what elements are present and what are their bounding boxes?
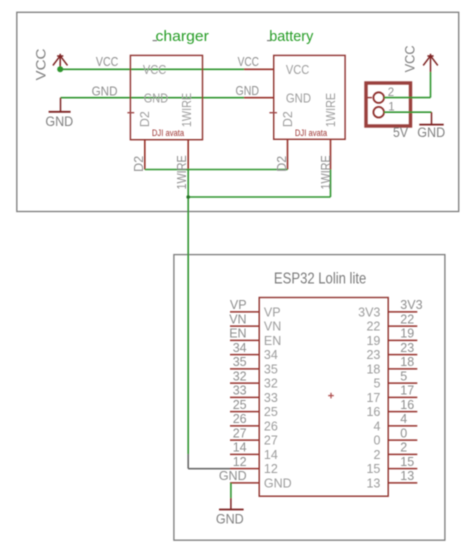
svg-text:17: 17 — [366, 391, 380, 405]
ground symbol (right) — [417, 112, 445, 140]
battery pin name D2 — [281, 111, 295, 127]
net label D2 (battery) — [275, 156, 289, 172]
wire pin1 to GND — [384, 111, 432, 113]
svg-text:23: 23 — [400, 341, 414, 355]
net label 26 — [233, 412, 247, 426]
svg-text:GND: GND — [45, 114, 73, 129]
svg-text:GND: GND — [236, 84, 260, 98]
net label 32 — [233, 369, 247, 383]
ESP32 right pin 19 stub — [388, 339, 417, 341]
wire GND (ESP32) — [230, 483, 232, 498]
ESP32 right pin 2 stub — [388, 453, 417, 455]
svg-text:4: 4 — [373, 419, 380, 433]
net label 15 — [400, 455, 414, 469]
svg-text:35: 35 — [233, 355, 247, 369]
svg-text:D2: D2 — [281, 111, 295, 127]
ESP32 left pin 14 stub — [230, 453, 259, 455]
net label VP — [230, 298, 247, 312]
wire pin2 to VCC — [384, 72, 431, 98]
pin number 2 — [388, 87, 394, 99]
svg-text:D2: D2 — [275, 156, 289, 172]
ESP32 pin name 15 — [366, 462, 380, 476]
ESP32 left pin 26 stub — [230, 425, 259, 427]
ESP32 pin name 35 — [264, 362, 278, 376]
ESP32 pin name 33 — [264, 391, 278, 405]
wire GND net — [61, 97, 245, 99]
battery pin name GND — [286, 91, 311, 105]
ESP32 left pin EN stub — [230, 339, 259, 341]
net label VCC (left) — [96, 55, 118, 69]
wire 1WIRE vertical (charger, down to ESP32) — [187, 170, 189, 455]
svg-text:14: 14 — [233, 441, 247, 455]
svg-text:D2: D2 — [138, 111, 152, 127]
wire to pin 12 (gray) — [188, 454, 230, 469]
svg-text:22: 22 — [366, 320, 380, 334]
net label GND — [219, 469, 247, 483]
ESP32 left pin VP stub — [230, 311, 259, 313]
svg-text:ESP32 Lolin lite: ESP32 Lolin lite — [274, 271, 366, 288]
svg-text:23: 23 — [366, 348, 380, 362]
battery pin GND stub — [244, 97, 274, 99]
svg-text:5: 5 — [400, 369, 407, 383]
ESP32 pin name 0 — [373, 434, 380, 448]
ESP32 pin name GND — [264, 476, 292, 490]
ESP32 component box — [259, 298, 388, 497]
ESP32 right pin 13 stub — [388, 482, 417, 484]
ESP32 right pin 18 stub — [388, 368, 417, 370]
net label GND (left) — [92, 84, 118, 98]
net label 35 — [233, 355, 247, 369]
svg-text:16: 16 — [366, 405, 380, 419]
svg-text:14: 14 — [264, 448, 278, 462]
ground symbol (ESP32) — [216, 498, 244, 526]
svg-text:EN: EN — [229, 327, 246, 341]
net label 13 — [400, 469, 414, 483]
svg-text:33: 33 — [233, 384, 247, 398]
charger value DJI avata — [152, 128, 184, 138]
net label 12 — [233, 455, 247, 469]
svg-text:5: 5 — [373, 377, 380, 391]
svg-text:charger: charger — [156, 28, 209, 45]
ESP32 right pin 3V3 stub — [388, 311, 417, 313]
ESP32 left pin 35 stub — [230, 368, 259, 370]
charger pin 1WIRE stub — [187, 140, 189, 170]
svg-text:19: 19 — [400, 327, 414, 341]
ESP32 pin name 17 — [366, 391, 380, 405]
svg-text:GND: GND — [219, 469, 247, 483]
svg-text:VN: VN — [264, 320, 281, 334]
svg-text:VCC: VCC — [33, 49, 49, 81]
svg-text:13: 13 — [366, 476, 380, 490]
net label 19 — [400, 327, 414, 341]
net label VN — [229, 312, 246, 326]
ESP32 pin name 34 — [264, 348, 278, 362]
svg-text:27: 27 — [233, 426, 247, 440]
net label 16 — [400, 398, 414, 412]
battery pin VCC stub — [244, 68, 274, 70]
svg-text:1WIRE: 1WIRE — [319, 155, 333, 189]
svg-text:32: 32 — [233, 369, 247, 383]
svg-text:25: 25 — [264, 405, 278, 419]
ESP32 pin name 19 — [366, 334, 380, 348]
ESP32 left pin VN stub — [230, 325, 259, 327]
svg-text:32: 32 — [264, 377, 278, 391]
connector J1 box — [366, 83, 411, 126]
svg-text:15: 15 — [366, 462, 380, 476]
ESP32 right pin 5 stub — [388, 382, 417, 384]
ESP32 right pin 17 stub — [388, 396, 417, 398]
charger pin name 1WIRE — [180, 93, 194, 127]
svg-text:0: 0 — [373, 434, 380, 448]
battery pin D2 stub — [287, 139, 289, 169]
battery value DJI avata — [295, 128, 327, 138]
junction dot 1WIRE — [186, 195, 190, 199]
svg-text:GND: GND — [286, 91, 311, 105]
ESP32 origin cross — [328, 393, 334, 399]
svg-text:2: 2 — [400, 441, 407, 455]
svg-text:VCC: VCC — [143, 63, 166, 77]
svg-text:3V3: 3V3 — [400, 298, 422, 312]
svg-text:VP: VP — [230, 298, 247, 312]
svg-text:DJI avata: DJI avata — [295, 128, 327, 138]
ESP32 right pin 15 stub — [388, 468, 417, 470]
svg-text:GND: GND — [417, 125, 445, 140]
net label 17 — [400, 384, 414, 398]
net label 27 — [233, 426, 247, 440]
svg-text:26: 26 — [233, 412, 247, 426]
net label 14 — [233, 441, 247, 455]
ESP32 pin name 3V3 — [358, 305, 380, 319]
net label charger (sheet text) — [153, 28, 209, 45]
svg-text:27: 27 — [264, 434, 278, 448]
wire 1WIRE vertical (battery) — [330, 170, 332, 198]
svg-text:5V: 5V — [393, 125, 408, 140]
ESP32 pin name VN — [264, 320, 281, 334]
net label 25 — [233, 398, 247, 412]
svg-text:4: 4 — [400, 412, 407, 426]
svg-text:17: 17 — [400, 384, 414, 398]
ESP32 left pin 12 stub — [230, 468, 259, 470]
supply symbol VCC (right) — [402, 45, 438, 72]
net label 3V3 — [400, 298, 422, 312]
charger pin D2 stub — [144, 140, 146, 170]
charger pin name GND — [144, 91, 168, 105]
svg-text:26: 26 — [264, 419, 278, 433]
svg-text:34: 34 — [233, 341, 247, 355]
svg-text:VN: VN — [229, 312, 246, 326]
charger component U1 (DJI avata) box — [130, 55, 202, 139]
net label GND (mid) — [236, 84, 260, 98]
ESP32 left pin GND stub — [230, 482, 259, 484]
ESP32 component title — [274, 271, 366, 288]
svg-text:GND: GND — [144, 91, 168, 105]
wire D2 net — [145, 169, 288, 171]
net label battery (sheet text) — [267, 28, 314, 45]
ESP32 right pin 23 stub — [388, 354, 417, 356]
ESP32 left pin 32 stub — [230, 382, 259, 384]
svg-text:15: 15 — [400, 455, 414, 469]
ESP32 pin name 32 — [264, 377, 278, 391]
ESP32 right pin 0 stub — [388, 439, 417, 441]
battery origin cross — [269, 112, 277, 114]
ground symbol (left) — [45, 98, 73, 129]
net label VCC (mid) — [238, 55, 259, 69]
svg-text:GND: GND — [264, 476, 292, 490]
net label EN — [229, 327, 246, 341]
svg-text:19: 19 — [366, 334, 380, 348]
svg-text:18: 18 — [366, 362, 380, 376]
ESP32 pin name 27 — [264, 434, 278, 448]
net label 23 — [400, 341, 414, 355]
net label 2 — [400, 441, 407, 455]
net label 1WIRE (battery) — [319, 155, 333, 189]
ESP32 pin name 25 — [264, 405, 278, 419]
svg-text:VCC: VCC — [286, 63, 309, 77]
svg-text:1WIRE: 1WIRE — [180, 93, 194, 127]
ESP32 left pin 33 stub — [230, 396, 259, 398]
net label 5 — [400, 369, 407, 383]
charger pin name VCC — [143, 63, 166, 77]
svg-text:DJI avata: DJI avata — [152, 128, 184, 138]
svg-text:18: 18 — [400, 355, 414, 369]
svg-text:VCC: VCC — [402, 45, 417, 72]
svg-text:16: 16 — [400, 398, 414, 412]
wire VCC net — [60, 68, 244, 70]
svg-text:3V3: 3V3 — [358, 305, 380, 319]
svg-text:VCC: VCC — [238, 55, 259, 69]
battery component U2 (DJI avata) box — [274, 55, 345, 139]
svg-text:D2: D2 — [132, 156, 146, 172]
svg-text:battery: battery — [269, 28, 314, 45]
ESP32 pin name 26 — [264, 419, 278, 433]
connector pin 1 circle — [373, 107, 384, 118]
svg-text:GND: GND — [92, 84, 118, 98]
battery pin name VCC — [286, 63, 309, 77]
svg-text:0: 0 — [400, 426, 407, 440]
svg-text:2: 2 — [373, 448, 380, 462]
svg-text:22: 22 — [400, 312, 414, 326]
ESP32 right pin 22 stub — [388, 325, 417, 327]
svg-text:25: 25 — [233, 398, 247, 412]
ESP32 pin name 12 — [264, 462, 278, 476]
net label 22 — [400, 312, 414, 326]
charger origin cross — [127, 112, 134, 114]
svg-text:12: 12 — [264, 462, 278, 476]
svg-text:GND: GND — [216, 511, 244, 526]
ESP32 pin name 13 — [366, 476, 380, 490]
net label 33 — [233, 384, 247, 398]
ESP32 pin name 16 — [366, 405, 380, 419]
battery pin name 1WIRE — [324, 93, 338, 127]
net label 4 — [400, 412, 407, 426]
ESP32 pin name 18 — [366, 362, 380, 376]
ESP32 right pin 4 stub — [388, 425, 417, 427]
svg-text:12: 12 — [233, 455, 247, 469]
connector pin 2 circle — [368, 92, 385, 103]
svg-text:1WIRE: 1WIRE — [324, 93, 338, 127]
charger pin name D2 — [138, 111, 152, 127]
svg-text:VCC: VCC — [96, 55, 118, 69]
ESP32 pin name EN — [264, 334, 281, 348]
svg-text:35: 35 — [264, 362, 278, 376]
ESP32 left pin 34 stub — [230, 354, 259, 356]
ESP32 pin name 4 — [373, 419, 380, 433]
ESP32 pin name 5 — [373, 377, 380, 391]
wire 1WIRE horizontal — [188, 196, 330, 198]
ESP32 pin name 2 — [373, 448, 380, 462]
svg-text:34: 34 — [264, 348, 278, 362]
battery pin 1WIRE stub — [330, 139, 332, 169]
ESP32 pin name 14 — [264, 448, 278, 462]
ESP32 left pin 25 stub — [230, 411, 259, 413]
svg-text:33: 33 — [264, 391, 278, 405]
connector value 5V — [393, 125, 408, 140]
ESP32 pin name 23 — [366, 348, 380, 362]
net label 0 — [400, 426, 407, 440]
junction dot VCC — [57, 66, 63, 72]
ESP32 pin name 22 — [366, 320, 380, 334]
svg-text:13: 13 — [400, 469, 414, 483]
ESP32 pin name VP — [264, 305, 281, 319]
svg-text:VP: VP — [264, 305, 281, 319]
ESP32 left pin 27 stub — [230, 439, 259, 441]
pin number 1 — [388, 102, 394, 114]
net label 1WIRE (charger) — [175, 155, 189, 189]
net label 34 — [233, 341, 247, 355]
ESP32 right pin 16 stub — [388, 411, 417, 413]
net label 18 — [400, 355, 414, 369]
svg-text:1WIRE: 1WIRE — [175, 155, 189, 189]
svg-text:EN: EN — [264, 334, 281, 348]
net label D2 (charger) — [132, 156, 146, 172]
supply symbol VCC (left) — [33, 49, 68, 81]
